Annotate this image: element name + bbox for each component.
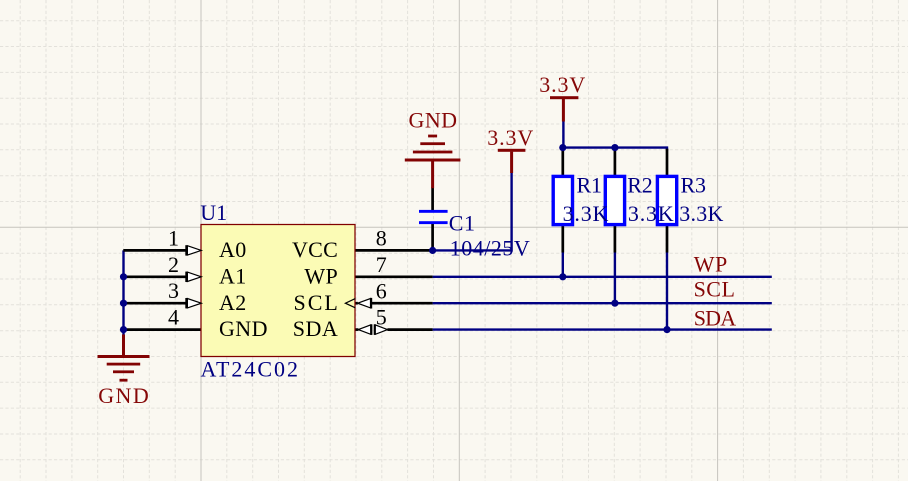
svg-text:2: 2 <box>168 252 179 277</box>
svg-text:3.3K: 3.3K <box>563 201 609 226</box>
svg-text:A0: A0 <box>219 237 246 262</box>
svg-text:SCL: SCL <box>694 277 735 302</box>
svg-text:GND: GND <box>98 383 149 408</box>
svg-text:VCC: VCC <box>292 237 338 262</box>
svg-text:8: 8 <box>376 226 387 251</box>
svg-text:AT24C02: AT24C02 <box>201 357 299 382</box>
svg-text:WP: WP <box>694 252 728 277</box>
svg-text:3.3V: 3.3V <box>539 72 585 97</box>
svg-text:104/25V: 104/25V <box>450 235 530 260</box>
svg-text:4: 4 <box>168 305 179 330</box>
svg-text:A2: A2 <box>219 290 246 315</box>
svg-text:WP: WP <box>304 263 337 288</box>
svg-text:SCL: SCL <box>294 290 338 315</box>
svg-text:1: 1 <box>168 225 179 250</box>
svg-text:SDA: SDA <box>694 305 736 330</box>
svg-text:7: 7 <box>376 252 387 277</box>
svg-text:A1: A1 <box>219 263 246 288</box>
svg-text:R1: R1 <box>577 172 603 197</box>
svg-text:5: 5 <box>376 305 387 330</box>
svg-text:U1: U1 <box>200 200 227 225</box>
svg-text:3.3K: 3.3K <box>628 201 674 226</box>
svg-text:6: 6 <box>376 278 387 303</box>
svg-text:SDA: SDA <box>293 316 338 341</box>
svg-text:3.3K: 3.3K <box>679 201 723 226</box>
svg-text:3.3V: 3.3V <box>487 125 533 150</box>
svg-text:R2: R2 <box>627 172 653 197</box>
svg-text:R3: R3 <box>681 172 707 197</box>
svg-text:3: 3 <box>168 278 179 303</box>
svg-text:GND: GND <box>409 108 458 133</box>
svg-text:C1: C1 <box>449 210 476 235</box>
svg-text:GND: GND <box>219 316 268 341</box>
